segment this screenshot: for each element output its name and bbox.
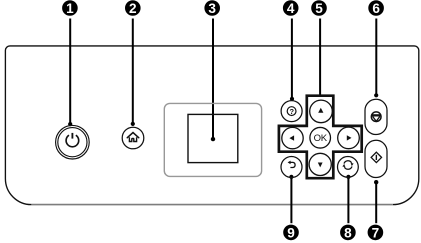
- callout line 5: [319, 19, 321, 97]
- callout circle 5: [311, 0, 327, 16]
- svg-text:9: 9: [287, 225, 295, 240]
- callout dot 7 (start): [374, 180, 378, 184]
- back button circle: [281, 157, 302, 178]
- arrow pad cross: [279, 96, 362, 179]
- callout line 1: [69, 19, 71, 125]
- home button circle: [122, 127, 144, 149]
- callout line 4: [291, 19, 293, 99]
- power button outer ring: [56, 125, 90, 159]
- stop icon: [371, 112, 381, 122]
- callout dot 6 (stop): [374, 93, 378, 97]
- callout line 2: [132, 19, 134, 125]
- OK button circle: [310, 127, 331, 148]
- LCD screen outer bezel: [164, 103, 261, 176]
- right button circle: [338, 127, 360, 149]
- callout circle 2: [125, 0, 141, 16]
- LCD screen inner display: [188, 114, 238, 162]
- callout circle 7: [368, 225, 384, 241]
- home icon: [127, 133, 138, 138]
- callout dot 1 (power): [68, 122, 72, 126]
- callout dot 4 (help): [290, 97, 294, 101]
- callout circle 4: [283, 0, 299, 16]
- left arrow: [289, 135, 294, 140]
- callout circle 9: [283, 225, 299, 241]
- up button circle: [310, 100, 333, 123]
- callout line 6: [375, 19, 377, 96]
- reset icon: [344, 161, 352, 164]
- callout circle 8: [340, 225, 356, 241]
- callout dot 8 (reset): [346, 175, 350, 179]
- svg-text:7: 7: [372, 225, 380, 240]
- svg-text:2: 2: [129, 1, 137, 16]
- back icon: [290, 162, 295, 167]
- start icon: [371, 152, 381, 162]
- down button circle: [309, 153, 331, 175]
- down arrow: [318, 163, 323, 168]
- power icon: [66, 135, 79, 147]
- help icon: [287, 107, 296, 116]
- svg-text:?: ?: [289, 107, 294, 116]
- svg-text:8: 8: [344, 225, 352, 240]
- panel bottom edge (gray): [31, 204, 392, 206]
- start button pill: [365, 140, 387, 177]
- callout circle 1: [62, 0, 78, 16]
- callout circle 6: [368, 0, 384, 16]
- callout dot 9 (back): [289, 175, 293, 179]
- svg-text:4: 4: [287, 1, 295, 16]
- svg-text:6: 6: [372, 1, 380, 16]
- callout dot 2 (home): [131, 122, 135, 126]
- reset button circle: [338, 157, 359, 178]
- left button circle: [282, 127, 303, 148]
- stop button pill: [365, 99, 387, 134]
- callout dot 3 (screen): [211, 137, 215, 141]
- panel body outline: [5, 46, 418, 205]
- callout line 9: [290, 177, 292, 223]
- svg-text:5: 5: [315, 1, 323, 16]
- callout line 7: [375, 182, 377, 223]
- callout circle 3: [204, 0, 220, 16]
- callout line 8: [347, 177, 349, 223]
- svg-text:OK: OK: [314, 133, 328, 144]
- power button inner ring: [58, 128, 87, 157]
- svg-text:3: 3: [208, 1, 216, 16]
- right arrow: [347, 135, 352, 140]
- help button circle: [281, 101, 302, 122]
- callout line 3: [212, 19, 214, 140]
- svg-text:1: 1: [66, 1, 74, 16]
- up arrow: [318, 108, 323, 113]
